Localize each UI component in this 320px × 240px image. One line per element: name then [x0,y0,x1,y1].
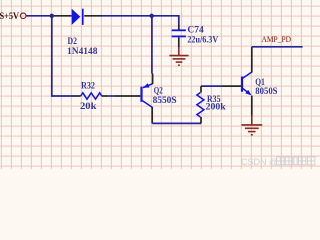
wire diode to node B and C74 [102,16,179,25]
resistor R35 200k [197,86,227,123]
wire Q1 collector to AMP_PD [252,46,303,48]
transistor Q1 8050S (NPN) [221,47,277,116]
node A junction [50,14,54,18]
svg-text:D2: D2 [68,37,78,47]
capacitor C74 22u/6.3V [172,25,219,48]
svg-text:C74: C74 [187,25,204,35]
svg-text:8550S: 8550S [153,96,177,106]
transistor Q2 8550S (PNP) [115,74,177,124]
power port S+5V [0,12,26,22]
wire R35 to Q1 base [201,85,221,87]
wire R32 to Q2 base [108,95,114,97]
svg-text:CSDN @: CSDN @ [241,157,278,167]
wire left rail down to R32 [52,16,73,96]
svg-text:20k: 20k [80,102,97,112]
wire port to node A [26,15,52,17]
ground (Q1 emitter) [241,115,262,135]
resistor R32 20k [73,81,109,112]
svg-text:22u/6.3V: 22u/6.3V [187,36,218,46]
watermark CSDN [241,157,315,167]
svg-text:AMP_PD: AMP_PD [262,34,292,44]
diode D2 1N4148 [54,9,102,58]
svg-text:200k: 200k [206,102,227,112]
svg-text:R32: R32 [81,81,95,91]
svg-text:8050S: 8050S [255,87,277,97]
ground (C74) [169,47,188,65]
wire node B down to Q2 [151,16,153,74]
wire Q2 collector to R35 [152,122,201,124]
node B junction [150,14,154,18]
svg-text:Q2: Q2 [154,86,163,96]
svg-text:S+5V: S+5V [0,12,19,22]
svg-text:1N4148: 1N4148 [67,47,98,57]
